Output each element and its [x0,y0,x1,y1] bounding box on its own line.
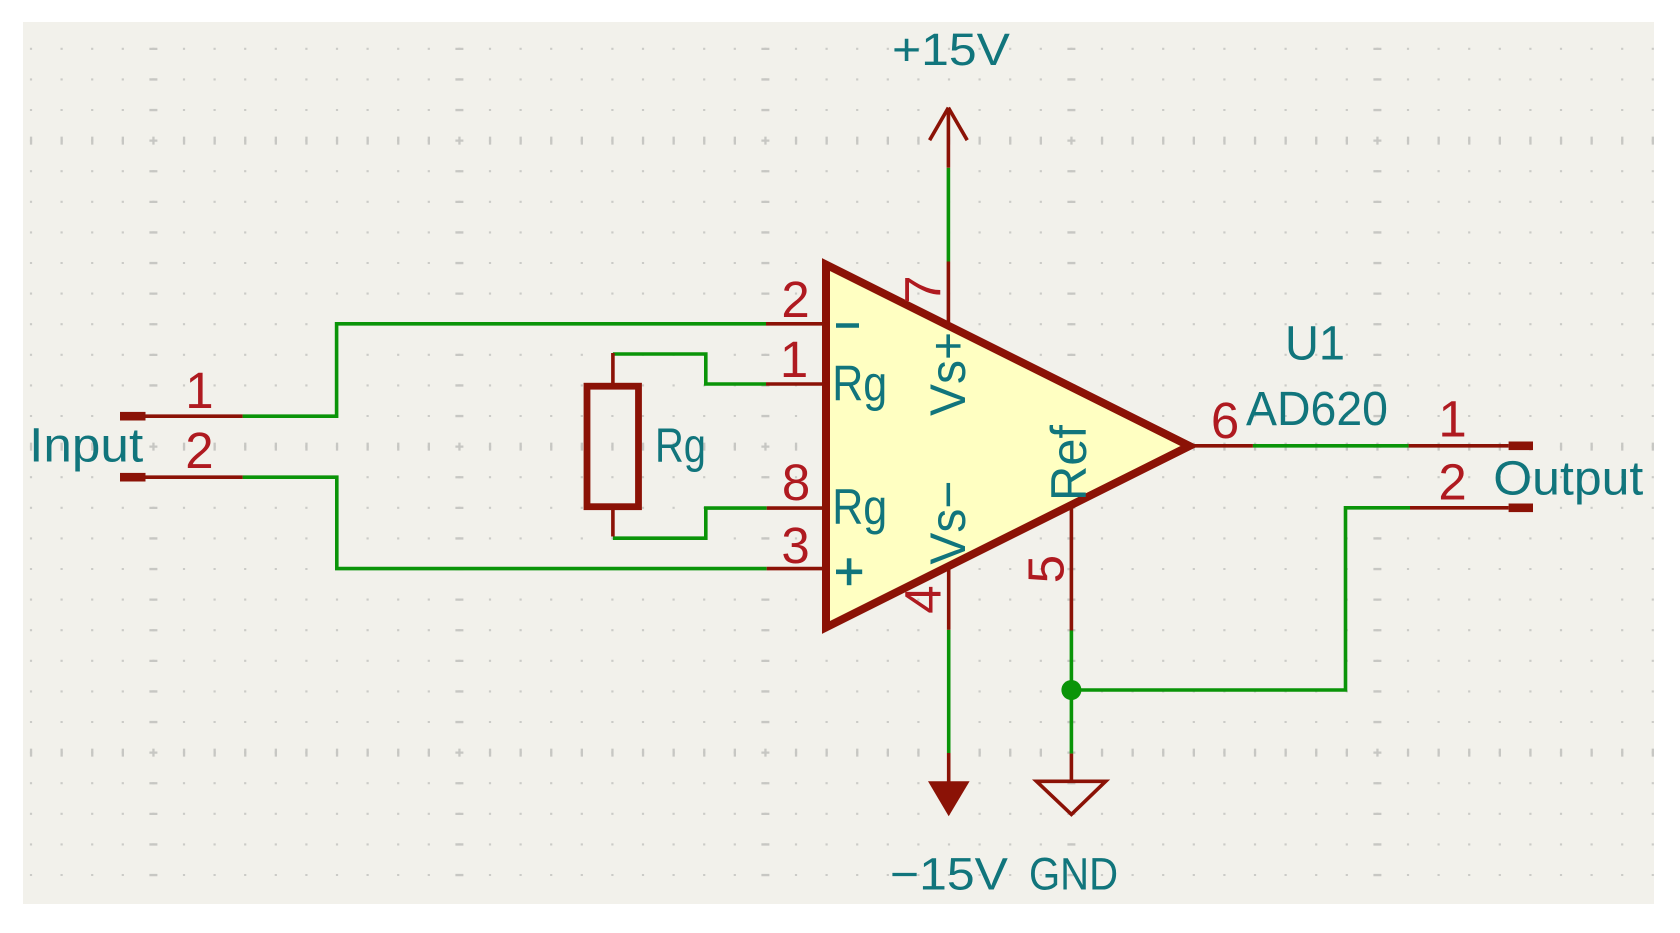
op-amp pin name + (non-inverting) [836,558,862,585]
connector Output pin 1 lead [1409,444,1509,448]
connector Output pin 1 pad [1509,442,1533,451]
svg-text:−15V: −15V [890,849,1008,900]
svg-text:2: 2 [1438,453,1466,510]
svg-text:Rg: Rg [832,479,887,535]
svg-text:GND: GND [1029,849,1118,900]
svg-text:4: 4 [895,585,952,613]
wire: Input pin 2 to op-amp pin 3 (non-inverting input) [243,477,767,568]
connector Output pin 2 lead [1410,506,1509,510]
op-amp U1 pin 7 lead [947,262,951,331]
svg-text:5: 5 [1018,555,1075,583]
op-amp U1 pin 1 lead [766,382,830,386]
svg-text:Vs+: Vs+ [920,332,976,416]
svg-text:1: 1 [185,362,213,419]
op-amp pin name - (inverting) [836,323,859,328]
wire: resistor Rg top to op-amp pin 1 [613,354,766,384]
op-amp U1 pin 8 lead [767,506,830,510]
power symbol +15V arrow [930,108,968,168]
svg-text:Vs−: Vs− [920,481,976,565]
junction node at Ref/GND [1061,680,1081,700]
svg-text:Rg: Rg [655,420,706,473]
resistor Rg bottom lead [611,508,615,537]
wire: op-amp pin 5 (Ref) down to GND node [1070,631,1074,754]
op-amp U1 pin 6 lead [1185,444,1253,448]
svg-text:7: 7 [894,275,951,303]
op-amp U1 pin 2 lead [766,322,830,326]
connector Input pin 2 pad [120,473,146,482]
svg-text:8: 8 [782,454,810,511]
svg-text:U1: U1 [1285,318,1345,371]
svg-text:1: 1 [780,331,808,388]
svg-text:Input: Input [29,420,143,473]
op-amp U1 triangle body [826,265,1190,628]
power symbol -15V arrow (filled) [928,753,970,816]
connector Input pin 1 lead [144,414,243,418]
svg-text:6: 6 [1211,392,1239,449]
resistor Rg body [587,386,639,507]
wire: +15V to op-amp pin 7 [947,168,951,262]
svg-text:Ref: Ref [1041,425,1097,501]
connector Input pin 2 lead [144,475,243,479]
svg-text:Output: Output [1493,453,1643,506]
op-amp U1 pin 5 lead [1070,500,1074,631]
op-amp U1 pin 4 lead [947,560,951,630]
wire: resistor Rg bottom to op-amp pin 8 [613,508,767,538]
svg-text:3: 3 [781,517,809,574]
svg-text:1: 1 [1438,390,1466,447]
wire: Input pin 1 to op-amp pin 2 (inverting input) [243,324,766,416]
svg-text:AD620: AD620 [1246,383,1388,436]
connector Output pin 2 pad [1509,504,1533,513]
wire: op-amp pin 6 output to Output pin 1 [1253,444,1409,448]
connector Input pin 1 pad [120,412,146,421]
resistor Rg top lead [611,353,615,385]
svg-text:2: 2 [781,271,809,328]
svg-text:+15V: +15V [892,24,1010,75]
wire: node REF to Output pin 2 [1070,508,1410,690]
svg-text:2: 2 [185,422,213,479]
wire: op-amp pin 4 to -15V [947,630,951,753]
op-amp U1 pin 3 lead [767,567,830,571]
ground symbol GND [1037,754,1106,815]
svg-text:Rg: Rg [832,356,887,412]
